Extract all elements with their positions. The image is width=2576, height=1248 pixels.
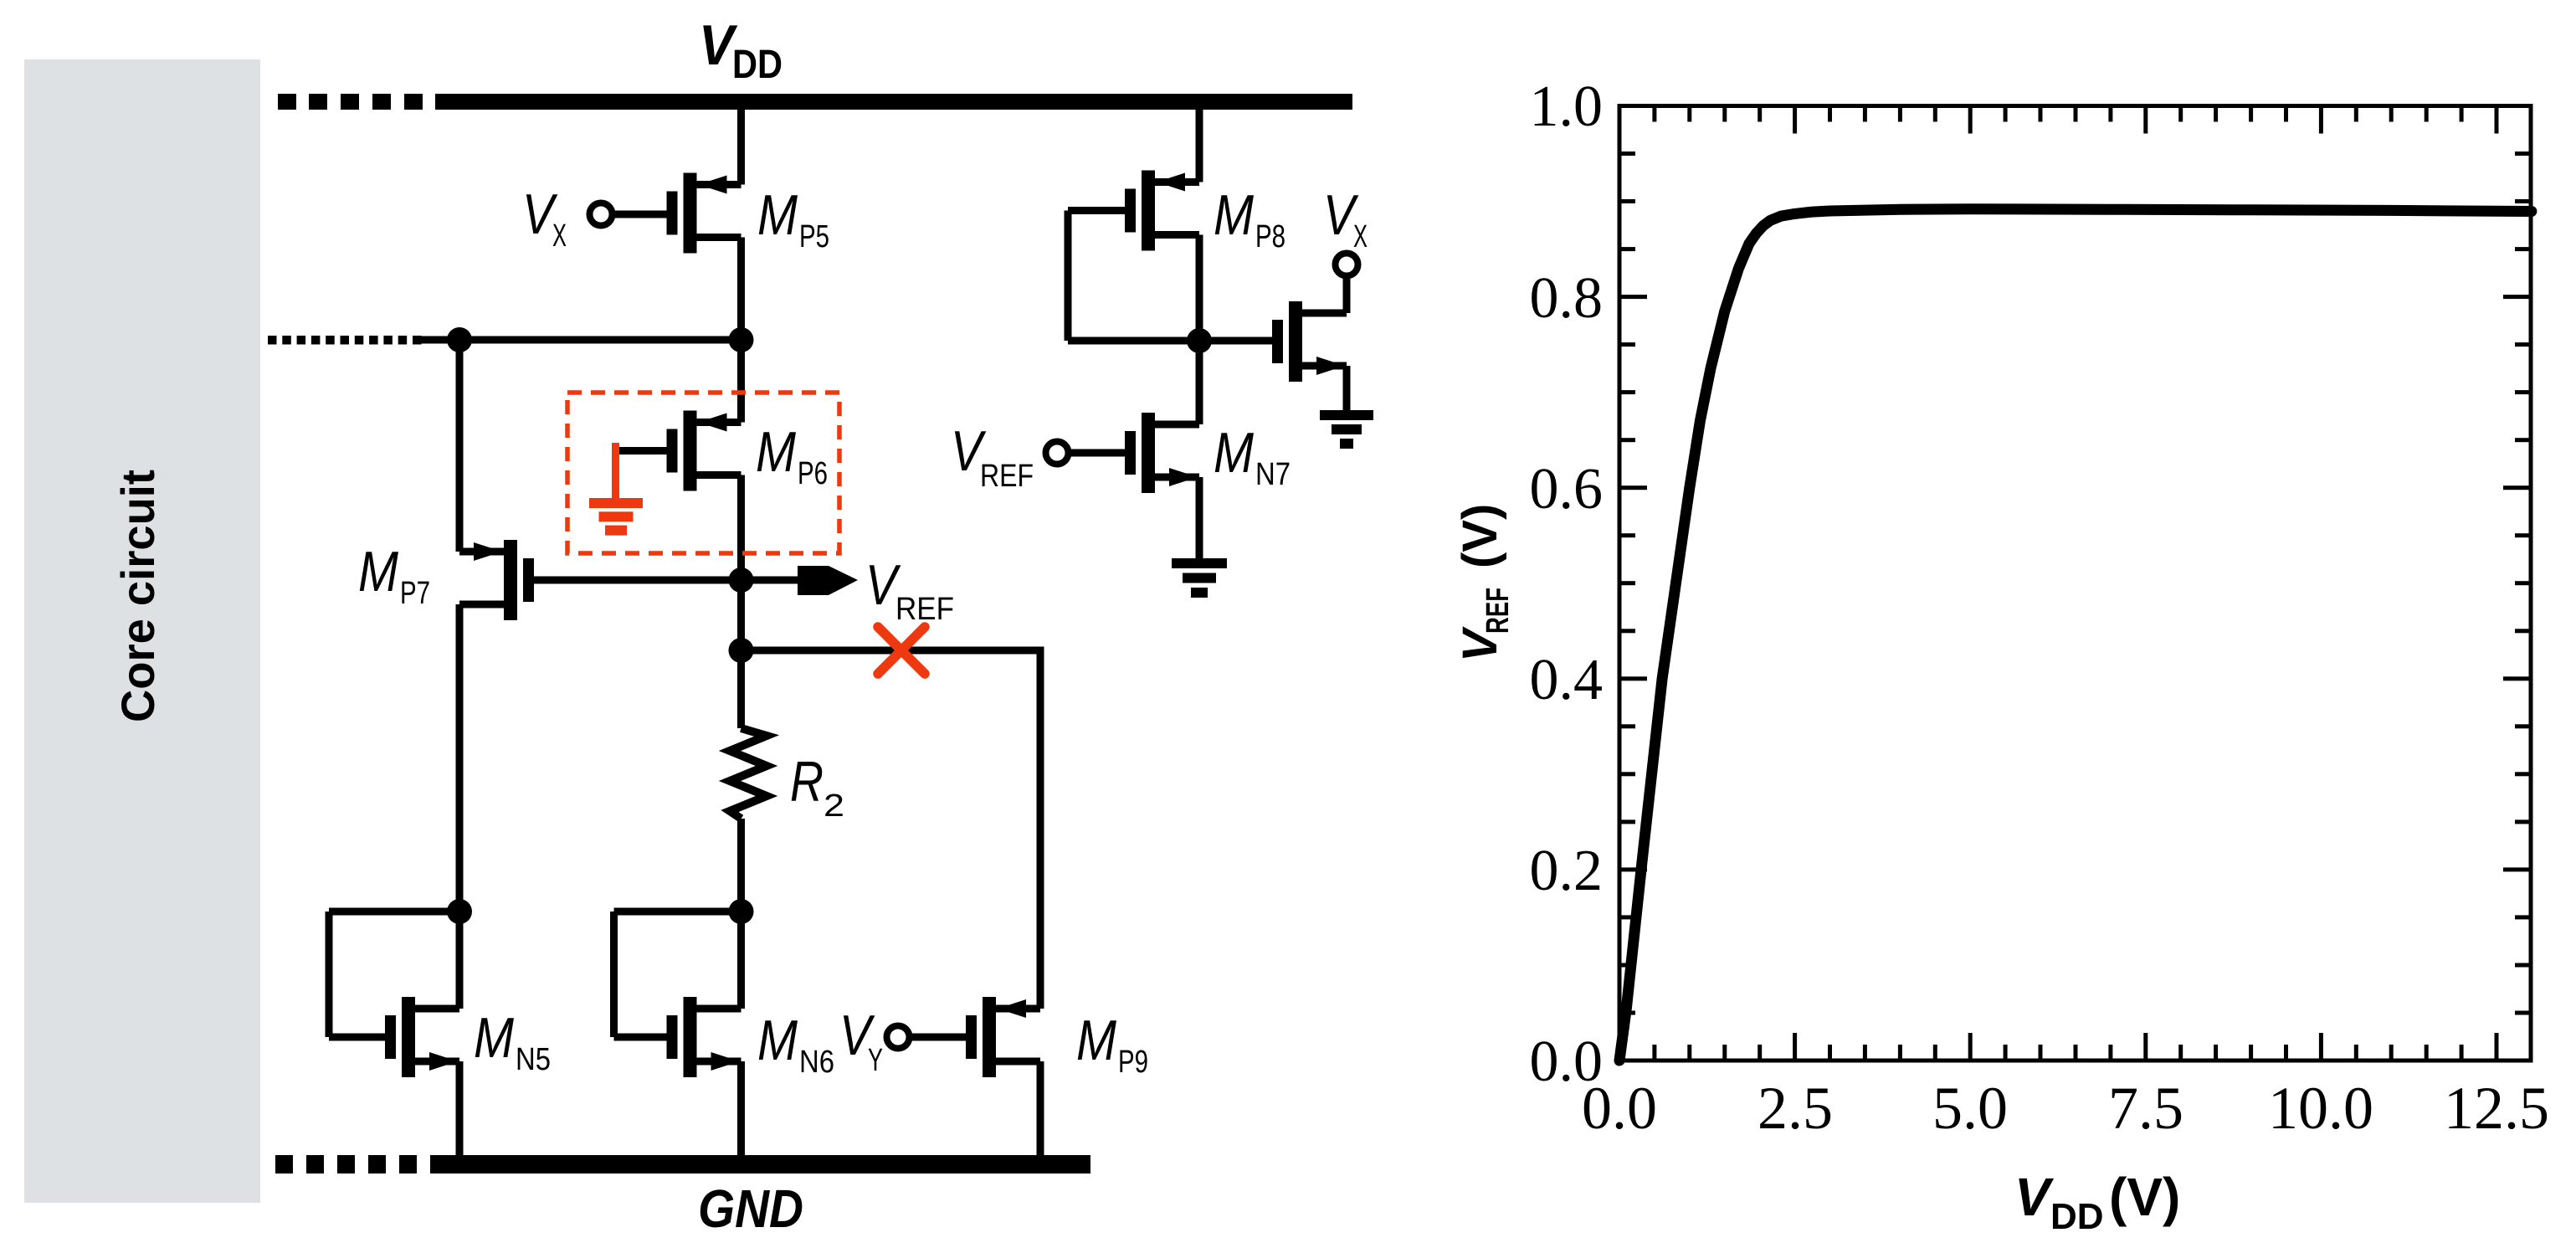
wire node A to MP7 source xyxy=(456,340,464,552)
wire VDD to MP5 source xyxy=(737,108,745,185)
wire VREF node to X node xyxy=(737,580,745,650)
follower ground xyxy=(1320,410,1373,449)
VX right label xyxy=(1323,183,1368,254)
terminal VX left circle xyxy=(590,203,613,226)
VREF input label xyxy=(951,419,1034,494)
wire VX to MP5 gate xyxy=(613,211,667,218)
svg-text:N6: N6 xyxy=(799,1045,834,1080)
VREF output label xyxy=(865,553,954,627)
MN5 label xyxy=(474,1006,551,1077)
transistor MP6 xyxy=(667,411,741,491)
wire MP6 drain to VREF node xyxy=(737,475,745,581)
wire MN6 source to GND xyxy=(737,1061,745,1164)
svg-text:P5: P5 xyxy=(799,219,829,254)
transistor follower NMOS xyxy=(1272,301,1347,382)
wire MN7 source to ground xyxy=(1196,477,1203,560)
VREF vs VDD curve xyxy=(1619,209,2532,1061)
svg-text:0.4: 0.4 xyxy=(1530,648,1604,712)
svg-text:M: M xyxy=(474,1006,514,1070)
junction VREF node xyxy=(729,568,754,593)
MP6 label xyxy=(756,420,828,491)
junction MN6 gate-drain xyxy=(729,899,754,924)
svg-text:M: M xyxy=(757,1009,798,1072)
VDD rail xyxy=(435,94,1352,110)
junction node A at MP5 drain xyxy=(729,327,754,352)
GND rail xyxy=(430,1155,1090,1174)
svg-text:0.8: 0.8 xyxy=(1530,266,1604,331)
svg-text:M: M xyxy=(1214,421,1254,485)
chart x axis title xyxy=(2014,1167,2180,1237)
svg-text:12.5: 12.5 xyxy=(2444,1075,2549,1142)
svg-text:REF: REF xyxy=(980,459,1034,494)
transistor MN5 xyxy=(385,997,459,1077)
wire VY to MP9 gate xyxy=(910,1034,967,1041)
MP7 label xyxy=(358,540,430,611)
VX left label xyxy=(522,182,567,254)
transistor MN7 xyxy=(1125,413,1199,493)
MP9 label xyxy=(1076,1009,1148,1080)
svg-text:1.0: 1.0 xyxy=(1530,74,1604,139)
svg-text:M: M xyxy=(1214,183,1254,247)
wire VREF to MN7 gate xyxy=(1069,449,1126,457)
wire MP7 gate to VREF node xyxy=(534,577,741,584)
svg-text:P7: P7 xyxy=(400,576,430,611)
svg-text:N7: N7 xyxy=(1255,457,1291,492)
red X open-fault mark xyxy=(878,627,925,674)
transistor MP8 xyxy=(1125,171,1199,251)
junction node A at MP7 branch xyxy=(447,327,472,352)
svg-text:5.0: 5.0 xyxy=(1932,1075,2008,1142)
wire MP8 drain to MN7 drain xyxy=(1196,235,1203,425)
MN7 ground xyxy=(1172,558,1227,598)
VDD net label xyxy=(699,13,783,87)
svg-text:V: V xyxy=(2014,1167,2055,1227)
VDD rail dashed stub xyxy=(278,94,423,110)
svg-text:2.5: 2.5 xyxy=(1758,1075,1833,1142)
terminal VY circle xyxy=(887,1026,910,1049)
core circuit panel xyxy=(24,59,260,1203)
svg-text:M: M xyxy=(756,420,796,484)
red dashed fault box xyxy=(567,393,839,553)
junction MP8 gate node xyxy=(1187,328,1212,353)
svg-text:(V): (V) xyxy=(1453,504,1507,568)
wire MN5 source to GND xyxy=(456,1061,464,1164)
MN6 label xyxy=(757,1009,834,1080)
svg-text:DD: DD xyxy=(2050,1196,2104,1237)
MP5 label xyxy=(757,183,829,254)
transistor MP7 xyxy=(459,540,534,620)
red fault wire to ground xyxy=(612,443,619,503)
wire VX to follower drain xyxy=(1343,276,1351,314)
resistor R2 xyxy=(730,728,767,819)
wire VREF node to arrow xyxy=(741,577,804,584)
GND rail dashed stub xyxy=(275,1155,417,1174)
svg-text:GND: GND xyxy=(698,1179,803,1239)
wire MP8 node to follower gate xyxy=(1199,337,1272,345)
chart tick marks xyxy=(1618,104,2532,1063)
wire MP9 drain to GND xyxy=(1037,1061,1044,1164)
MP8 label xyxy=(1214,183,1285,254)
svg-text:0.6: 0.6 xyxy=(1530,457,1604,521)
MP8 gate diode loop xyxy=(1065,207,1200,345)
wire follower source to ground xyxy=(1343,366,1351,412)
wire MP6 gate stub xyxy=(618,447,667,455)
wire node A horizontal xyxy=(416,336,741,344)
wire X node down to MP9 source xyxy=(1037,650,1044,1009)
R2 value label xyxy=(790,750,844,824)
svg-text:M: M xyxy=(1076,1009,1116,1072)
node A dotted stub xyxy=(268,336,422,345)
svg-text:Y: Y xyxy=(868,1043,883,1078)
svg-text:M: M xyxy=(757,183,798,247)
transistor MN6 xyxy=(667,997,741,1077)
junction MN5 gate-drain xyxy=(447,899,472,924)
svg-text:X: X xyxy=(1353,219,1368,254)
svg-text:0.0: 0.0 xyxy=(1582,1075,1657,1142)
svg-text:REF: REF xyxy=(1480,588,1516,634)
svg-text:X: X xyxy=(552,218,567,254)
MN7 label xyxy=(1214,421,1291,492)
junction X node xyxy=(729,638,754,663)
MN6 gate feedback loop xyxy=(610,908,741,1041)
svg-text:M: M xyxy=(358,540,398,603)
svg-text:0.2: 0.2 xyxy=(1530,839,1604,903)
wire MP7 drain to MN5 drain xyxy=(456,604,464,1009)
svg-text:N5: N5 xyxy=(516,1042,551,1077)
svg-text:P8: P8 xyxy=(1255,219,1285,254)
svg-text:REF: REF xyxy=(895,592,954,627)
red fault ground xyxy=(589,498,643,536)
VY label xyxy=(839,1004,883,1078)
svg-text:7.5: 7.5 xyxy=(2108,1075,2183,1142)
transistor MP5 xyxy=(667,173,741,254)
svg-text:10.0: 10.0 xyxy=(2268,1075,2373,1142)
wire VDD to MP8 source xyxy=(1196,108,1203,182)
wire node A to MP6 source xyxy=(737,340,745,423)
wire R2 bottom to MN6 drain xyxy=(737,819,745,1009)
svg-text:(V): (V) xyxy=(2109,1167,2180,1227)
chart y axis title xyxy=(1453,504,1516,662)
svg-text:P9: P9 xyxy=(1118,1045,1148,1080)
svg-text:Core circuit: Core circuit xyxy=(111,470,164,722)
wire X node horizontal xyxy=(741,647,1044,655)
svg-text:2: 2 xyxy=(824,788,844,824)
chart y tick labels xyxy=(1530,74,1604,1094)
transistor MP9 xyxy=(966,997,1040,1077)
MN5 gate feedback loop xyxy=(326,908,460,1041)
svg-text:P6: P6 xyxy=(798,456,828,491)
wire X node to R2 top xyxy=(737,650,745,728)
chart x tick labels xyxy=(1582,1075,2549,1142)
VREF output arrow xyxy=(798,566,858,595)
terminal VX right circle xyxy=(1336,254,1358,276)
wire MP5 drain to node A xyxy=(737,238,745,341)
svg-text:R: R xyxy=(790,750,824,814)
terminal VREF circle xyxy=(1046,442,1069,465)
svg-text:DD: DD xyxy=(732,43,783,87)
chart axes frame xyxy=(1618,104,2533,1063)
